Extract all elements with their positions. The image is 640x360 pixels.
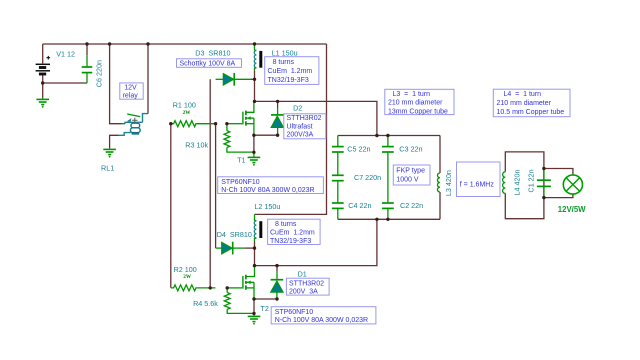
svg-text:D2: D2 <box>293 103 302 112</box>
svg-text:T2: T2 <box>261 304 269 313</box>
svg-text:13mm Copper tube: 13mm Copper tube <box>388 108 448 115</box>
svg-text:C1 22n: C1 22n <box>527 169 536 192</box>
svg-text:N-Ch 100V 80A 300W 0,023R: N-Ch 100V 80A 300W 0,023R <box>221 187 314 194</box>
svg-text:L3 420n: L3 420n <box>444 170 453 196</box>
svg-text:f = 1.6MHz: f = 1.6MHz <box>460 181 495 188</box>
svg-text:RL1: RL1 <box>101 163 114 172</box>
svg-text:STP60NF10: STP60NF10 <box>221 179 260 186</box>
svg-text:N-Ch 100V 80A 300W 0,023R: N-Ch 100V 80A 300W 0,023R <box>275 317 368 324</box>
svg-text:R4 5.6k: R4 5.6k <box>193 299 218 308</box>
svg-text:2W: 2W <box>183 274 192 280</box>
svg-text:210 mm diameter: 210 mm diameter <box>388 100 443 107</box>
svg-text:8 turns: 8 turns <box>275 221 297 228</box>
svg-text:200V/3A: 200V/3A <box>287 132 314 139</box>
svg-text:T1: T1 <box>237 156 245 165</box>
svg-text:STTH3R02: STTH3R02 <box>287 115 322 122</box>
svg-text:TN32/19-3F3: TN32/19-3F3 <box>270 238 311 245</box>
svg-text:C4 22n: C4 22n <box>348 201 371 210</box>
svg-text:STP60NF10: STP60NF10 <box>275 309 314 316</box>
svg-text:210 mm diameter: 210 mm diameter <box>497 100 552 107</box>
svg-text:R2 100: R2 100 <box>174 265 197 274</box>
svg-text:C3 22n: C3 22n <box>399 144 422 153</box>
svg-text:STTH3R02: STTH3R02 <box>289 280 324 287</box>
svg-text:L4 = 1 turn: L4 = 1 turn <box>504 91 542 98</box>
svg-text:L1 150u: L1 150u <box>272 49 298 58</box>
svg-text:C5 22n: C5 22n <box>347 144 370 153</box>
svg-text:2W: 2W <box>183 110 192 116</box>
svg-text:FKP type: FKP type <box>396 168 425 175</box>
svg-text:L3 = 1 turn: L3 = 1 turn <box>393 91 431 98</box>
svg-text:12V: 12V <box>124 85 137 92</box>
svg-text:L4 420n: L4 420n <box>512 170 521 196</box>
svg-text:Ultrafast: Ultrafast <box>287 123 313 130</box>
svg-text:D4 SR810: D4 SR810 <box>217 230 252 239</box>
svg-text:1000 V: 1000 V <box>396 177 419 184</box>
svg-text:R3 10k: R3 10k <box>185 140 208 149</box>
svg-text:200V 3A: 200V 3A <box>289 289 318 296</box>
svg-text:CuEm 1.2mm: CuEm 1.2mm <box>270 230 315 237</box>
svg-text:D3 SR810: D3 SR810 <box>195 49 230 58</box>
svg-text:8 turns: 8 turns <box>273 59 295 66</box>
svg-text:D1: D1 <box>298 270 307 279</box>
svg-text:Schottky 100V 8A: Schottky 100V 8A <box>180 61 236 68</box>
svg-text:R1 100: R1 100 <box>173 101 196 110</box>
svg-text:C2 22n: C2 22n <box>400 201 423 210</box>
svg-text:relay: relay <box>123 92 139 99</box>
svg-text:L2 150u: L2 150u <box>254 202 280 211</box>
svg-text:C7 220n: C7 220n <box>354 173 381 182</box>
svg-text:10.5 mm Copper tube: 10.5 mm Copper tube <box>497 109 565 116</box>
svg-text:CuEm 1.2mm: CuEm 1.2mm <box>268 68 313 75</box>
svg-text:V1 12: V1 12 <box>56 50 75 59</box>
svg-text:C6 220n: C6 220n <box>95 60 104 87</box>
svg-text:TN32/19-3F3: TN32/19-3F3 <box>268 77 309 84</box>
svg-text:12V/5W: 12V/5W <box>558 205 586 214</box>
